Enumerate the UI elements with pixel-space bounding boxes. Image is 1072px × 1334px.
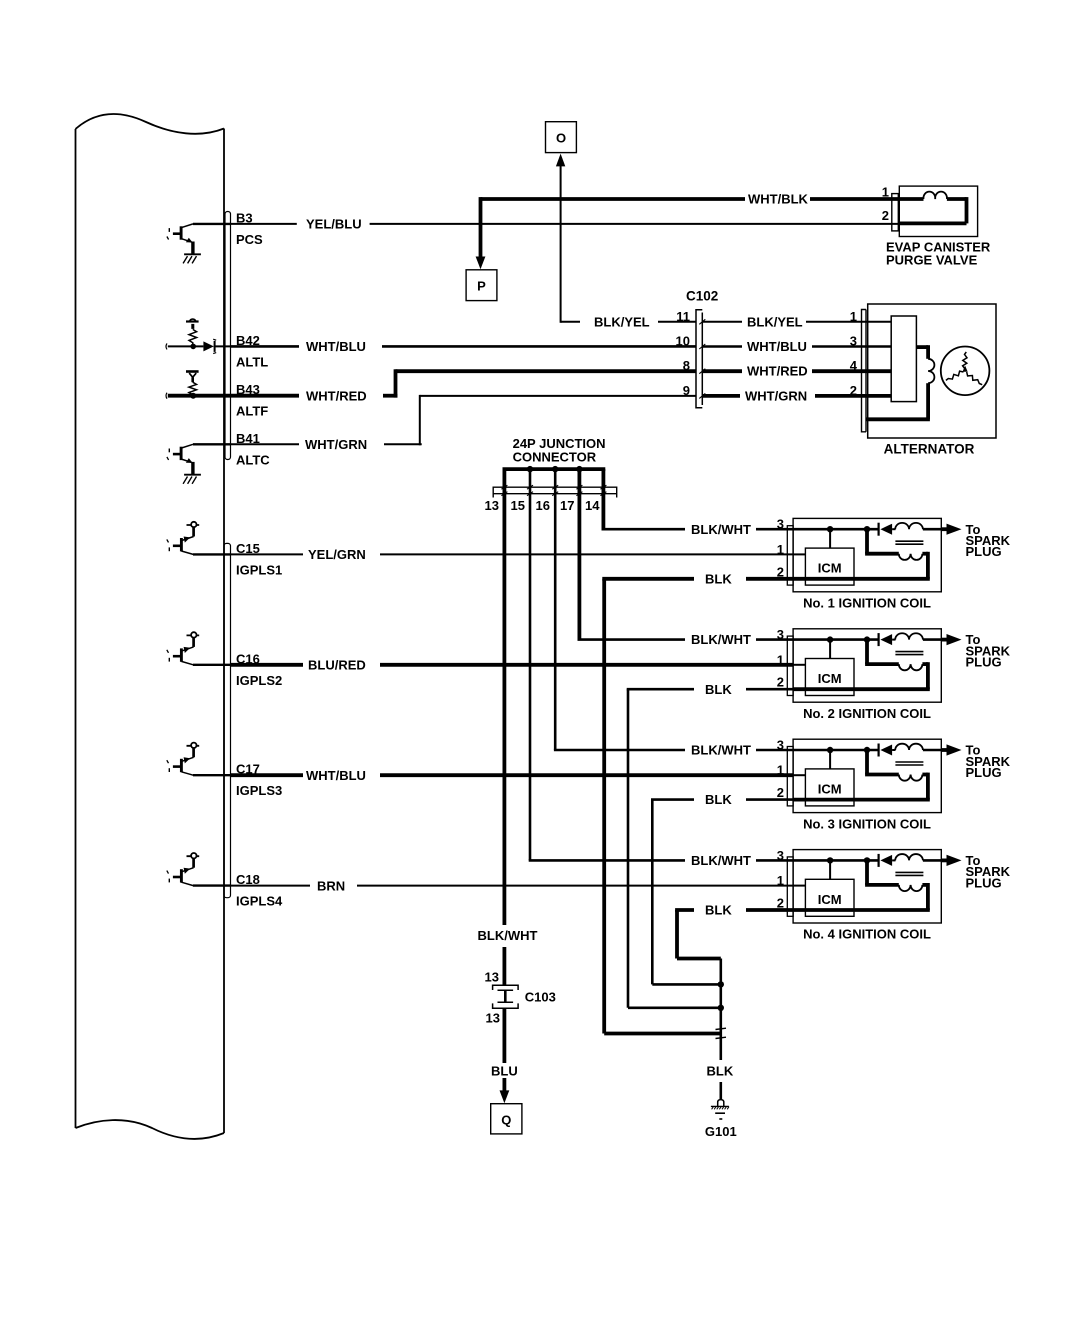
- No. 2 coil pin 1 internal wire: [793, 664, 805, 666]
- ECM pin label C15/IGPLS1: [236, 541, 282, 578]
- No. 1 ignition coil body: [793, 518, 941, 591]
- svg-text:WHT/BLU: WHT/BLU: [306, 768, 366, 783]
- No. 1 coil ICM supply lead: [829, 529, 831, 548]
- ground symbol G101: [711, 1100, 729, 1119]
- 24P junction connector body band: [493, 487, 617, 497]
- svg-text:BLK: BLK: [707, 1064, 734, 1079]
- svg-text:2: 2: [850, 383, 857, 398]
- No. 1 coil pin 1 internal wire: [793, 553, 805, 555]
- No. 3 coil pin numbers 3 1 2: [777, 738, 784, 801]
- ground (B3 driver emitter): [0, 0, 1, 1]
- No. 2 coil connector bracket: [787, 636, 793, 695]
- contact ticks on connector C102: [699, 319, 705, 398]
- No. 4 coil pin 2 internal wire: [793, 908, 930, 912]
- svg-text:B41: B41: [236, 431, 260, 446]
- No. 1 coil secondary winding: [865, 529, 928, 579]
- label WHT/BLU (left): [306, 339, 366, 354]
- connector box O: [546, 122, 577, 153]
- svg-text:Q: Q: [501, 1112, 511, 1127]
- svg-text:ALTC: ALTC: [236, 452, 270, 467]
- No. 3 coil output arrow to spark plug: [941, 744, 961, 755]
- svg-text:BLK/WHT: BLK/WHT: [691, 522, 751, 537]
- No. 4 coil output arrow to spark plug: [941, 855, 961, 866]
- alternator 3-phase stator symbol: [941, 347, 990, 396]
- No. 4 coil pin 1 internal wire: [793, 885, 805, 887]
- ECM pin label C17/IGPLS3: [236, 762, 282, 799]
- svg-text:3: 3: [850, 334, 857, 349]
- svg-text:11: 11: [676, 309, 690, 324]
- transistor at pin C16: [167, 632, 199, 665]
- svg-text:No. 1 IGNITION COIL: No. 1 IGNITION COIL: [803, 596, 931, 611]
- ECM pin label C16/IGPLS2: [236, 651, 282, 688]
- svg-text:WHT/RED: WHT/RED: [306, 388, 367, 403]
- svg-text:PURGE VALVE: PURGE VALVE: [886, 253, 978, 268]
- 24P junction pin numbers 13 15 16 17 14: [485, 498, 601, 513]
- svg-text:PLUG: PLUG: [966, 875, 1002, 890]
- label WHT/BLU (C17): [306, 768, 366, 783]
- label WHT/BLU (right): [747, 339, 807, 354]
- No. 4 coil connector bracket: [787, 857, 793, 916]
- No. 1 coil internal B+ wire: [793, 528, 879, 531]
- No. 3 ignition coil body: [793, 739, 941, 812]
- svg-text:IGPLS2: IGPLS2: [236, 673, 282, 688]
- svg-text:2: 2: [777, 564, 784, 579]
- No. 3 coil junction dots: [827, 747, 870, 753]
- svg-text:PLUG: PLUG: [966, 765, 1002, 780]
- No. 2 coil transformer core: [895, 652, 923, 655]
- svg-text:BLK/YEL: BLK/YEL: [594, 314, 650, 329]
- label BLK (No.1 coil): [705, 571, 732, 586]
- svg-text:C17: C17: [236, 762, 260, 777]
- wire BLU/RED from pin C16 to No.2 coil pin 1: [231, 663, 794, 667]
- label BLK/WHT (No.3 coil): [691, 743, 751, 758]
- EVAP canister purge valve connector bracket: [892, 194, 899, 231]
- connector C103: [493, 985, 518, 1008]
- svg-text:ICM: ICM: [818, 892, 842, 907]
- wire BRN from pin C18 to No.4 coil pin 1: [231, 885, 794, 887]
- svg-text:1: 1: [777, 873, 784, 888]
- svg-text:IGPLS4: IGPLS4: [236, 894, 283, 909]
- wire WHT/BLK from connector P down-feed to EVAP valve pin 1: [476, 197, 899, 269]
- label ALTERNATOR: [884, 442, 975, 457]
- svg-text:WHT/GRN: WHT/GRN: [745, 388, 807, 403]
- No. 3 coil diode: [879, 744, 893, 757]
- EVAP pin numbers 1 2: [882, 185, 889, 223]
- No. 2 coil output arrow to spark plug: [941, 634, 961, 645]
- svg-text:2: 2: [777, 785, 784, 800]
- alternator body: [868, 304, 996, 438]
- svg-text:WHT/BLK: WHT/BLK: [748, 192, 809, 207]
- label YEL/GRN: [308, 547, 366, 562]
- wire junction pin 14 to No.1 coil (BLK/WHT): [602, 469, 794, 529]
- svg-text:C15: C15: [236, 541, 260, 556]
- No. 3 coil pin 2 internal wire: [793, 798, 930, 802]
- No. 3 coil transformer core: [895, 762, 923, 765]
- No. 2 ignition coil body: [793, 629, 941, 702]
- label BLK/WHT (No.4 coil): [691, 853, 751, 868]
- svg-text:No. 4 IGNITION COIL: No. 4 IGNITION COIL: [803, 927, 931, 942]
- junction dots on ground bus: [718, 981, 724, 1011]
- svg-text:YEL/BLU: YEL/BLU: [306, 217, 362, 232]
- alternator pin numbers 1 3 4 2: [850, 309, 858, 398]
- svg-text:B43: B43: [236, 382, 260, 397]
- label G101: [705, 1124, 737, 1139]
- label BLK/WHT (vertical wire): [478, 928, 538, 943]
- label No. 3 IGNITION COIL: [803, 816, 931, 831]
- svg-text:3: 3: [777, 738, 784, 753]
- ECM pin label B42/ALTL: [236, 333, 268, 370]
- label BLK/YEL (right): [747, 314, 803, 329]
- svg-text:16: 16: [536, 498, 550, 513]
- label BLK (ground wire): [707, 1064, 734, 1079]
- No. 2 coil diode: [879, 633, 893, 646]
- No. 3 coil ICM supply lead: [829, 750, 831, 769]
- No. 4 coil primary winding: [892, 854, 941, 860]
- svg-text:15: 15: [511, 498, 525, 513]
- No. 2 coil pin 2 internal wire: [793, 687, 930, 691]
- svg-text:BLK/WHT: BLK/WHT: [478, 928, 538, 943]
- wire BLK from No.3 coil pin 2: [651, 800, 794, 985]
- svg-text:BLK: BLK: [705, 792, 732, 807]
- connector box Q: [491, 1104, 522, 1134]
- label BLK (No.2 coil): [705, 682, 732, 697]
- svg-text:4: 4: [850, 358, 858, 373]
- svg-text:ICM: ICM: [818, 671, 842, 686]
- svg-text:10: 10: [676, 334, 690, 349]
- No. 4 ignition coil body: [793, 850, 941, 923]
- svg-text:ICM: ICM: [818, 561, 842, 576]
- alternator internal regulator box: [891, 316, 916, 402]
- transistor at pin C15: [167, 522, 199, 555]
- label WHT/RED (left): [306, 388, 367, 403]
- label To SPARK PLUG (No.3): [966, 743, 1011, 780]
- label 24P JUNCTION CONNECTOR: [513, 436, 606, 464]
- No. 4 coil pin numbers 3 1 2: [777, 848, 784, 911]
- C102 pin numbers 11 10 8 9: [676, 309, 690, 398]
- 24P junction connector bus bar: [503, 467, 606, 471]
- wire WHT/BLU from pin B42 to C102 pin 10: [231, 345, 697, 348]
- label WHT/RED (right): [747, 364, 808, 379]
- wire WHT/RED C102 pin 8 to alternator pin 4: [702, 369, 891, 373]
- wire BLK/YEL rising to connector O: [556, 154, 696, 323]
- svg-text:ALTL: ALTL: [236, 354, 268, 369]
- transistor at pin C18: [167, 853, 199, 886]
- No. 4 coil ICM module: [805, 879, 854, 916]
- svg-text:13: 13: [485, 498, 499, 513]
- No. 4 coil diode: [879, 854, 893, 867]
- svg-text:B42: B42: [236, 333, 260, 348]
- No. 2 coil pin numbers 3 1 2: [777, 627, 784, 690]
- ECM pin label B43/ALTF: [236, 382, 268, 419]
- No. 2 coil ICM supply lead: [829, 640, 831, 659]
- svg-text:PLUG: PLUG: [966, 544, 1002, 559]
- label BLK/WHT (No.2 coil): [691, 632, 751, 647]
- No. 2 coil ICM module: [805, 659, 854, 696]
- svg-text:8: 8: [683, 358, 690, 373]
- svg-text:IGPLS1: IGPLS1: [236, 562, 282, 577]
- C103 pin number 13 (top): [485, 970, 499, 985]
- splice ticks at BLK junction: [716, 1028, 727, 1038]
- No. 1 coil transformer core: [895, 541, 923, 544]
- svg-text:PLUG: PLUG: [966, 655, 1002, 670]
- connector box P: [466, 270, 497, 301]
- svg-text:BLK: BLK: [705, 682, 732, 697]
- label To SPARK PLUG (No.2): [966, 632, 1011, 669]
- svg-text:PCS: PCS: [236, 232, 263, 247]
- No. 3 coil ICM module: [805, 769, 854, 806]
- svg-text:2: 2: [777, 896, 784, 911]
- svg-text:9: 9: [683, 383, 690, 398]
- No. 3 coil pin 1 internal wire: [793, 774, 805, 776]
- label To SPARK PLUG (No.4): [966, 853, 1011, 890]
- wire BLK from No.2 coil pin 2: [627, 689, 794, 1008]
- No. 4 coil secondary winding: [865, 860, 928, 910]
- No. 4 coil ICM supply lead: [829, 860, 831, 879]
- wire WHT/RED from pin B43 to C102 pin 8: [231, 369, 697, 397]
- svg-text:No. 2 IGNITION COIL: No. 2 IGNITION COIL: [803, 706, 931, 721]
- svg-text:1: 1: [777, 763, 784, 778]
- svg-text:BLK: BLK: [705, 903, 732, 918]
- ECM pin label B41/ALTC: [236, 431, 270, 468]
- No. 1 coil ICM module: [805, 548, 854, 585]
- svg-text:ALTF: ALTF: [236, 404, 268, 419]
- svg-text:C102: C102: [686, 289, 718, 304]
- wire BLK/WHT junction pin 13 down to C103: [502, 469, 506, 985]
- label WHT/BLK: [748, 192, 809, 207]
- label C102: [686, 289, 718, 304]
- wire YEL/BLU from pin B3 to EVAP valve pin 2: [231, 223, 899, 225]
- No. 3 coil secondary winding: [865, 750, 928, 800]
- svg-text:P: P: [477, 279, 486, 294]
- svg-text:3: 3: [777, 627, 784, 642]
- label No. 4 IGNITION COIL: [803, 927, 931, 942]
- svg-text:14: 14: [585, 498, 600, 513]
- ground bus wire down to G101: [719, 959, 722, 1101]
- svg-text:WHT/GRN: WHT/GRN: [305, 437, 367, 452]
- C103 pin number 13 (bottom): [486, 1011, 500, 1026]
- transistor at pin B41: [167, 444, 201, 484]
- ECM/PCM block outline: [76, 114, 225, 1139]
- svg-text:IGPLS3: IGPLS3: [236, 783, 282, 798]
- wire WHT/GRN from pin B41 to C102 pin 9: [231, 395, 697, 445]
- transistor at pin C17: [167, 743, 199, 776]
- wire WHT/BLU C102 pin 10 to alternator pin 3: [702, 345, 891, 348]
- label To SPARK PLUG (No.1): [966, 522, 1011, 559]
- svg-text:WHT/RED: WHT/RED: [747, 364, 808, 379]
- svg-text:1: 1: [777, 652, 784, 667]
- contact ticks on 24P connector band: [501, 485, 606, 496]
- svg-text:13: 13: [485, 970, 499, 985]
- svg-text:17: 17: [560, 498, 574, 513]
- No. 2 coil junction dots: [827, 636, 870, 642]
- svg-text:BRN: BRN: [317, 878, 345, 893]
- No. 1 coil pin 2 internal wire: [793, 577, 930, 581]
- zener diode at pin B43: [186, 372, 199, 396]
- wire WHT/GRN C102 pin 9 to alternator pin 2: [702, 394, 891, 398]
- svg-text:WHT/BLU: WHT/BLU: [306, 339, 366, 354]
- svg-text:C18: C18: [236, 872, 260, 887]
- label BLK (No.3 coil): [705, 792, 732, 807]
- No. 3 coil primary winding: [892, 744, 941, 750]
- svg-text:O: O: [556, 131, 566, 146]
- label EVAP CANISTER PURGE VALVE: [886, 240, 991, 268]
- wire BLK/YEL C102 pin 11 to alternator pin 1: [702, 321, 891, 323]
- svg-text:B3: B3: [236, 210, 253, 225]
- svg-text:1: 1: [777, 542, 784, 557]
- wire junction pin 16 to No.3 coil (BLK/WHT): [554, 469, 794, 750]
- wire junction pin 15 to No.4 coil (BLK/WHT): [529, 469, 794, 860]
- ECM pin label B3/PCS: [236, 210, 263, 247]
- zener diode at pin B42: [186, 319, 199, 346]
- No. 1 coil primary winding: [892, 523, 941, 529]
- EVAP canister purge valve body: [898, 186, 977, 236]
- label YEL/BLU: [306, 217, 362, 232]
- svg-text:2: 2: [777, 675, 784, 690]
- No. 3 coil internal B+ wire: [793, 749, 879, 752]
- label BLK/WHT (No.1 coil): [691, 522, 751, 537]
- wire BLK from No.4 coil pin 2: [675, 910, 793, 959]
- diode in series at pin B42: [166, 339, 231, 353]
- svg-text:BLU/RED: BLU/RED: [308, 658, 366, 673]
- No. 4 coil internal B+ wire: [793, 859, 879, 862]
- alternator connector bracket: [862, 310, 867, 432]
- No. 2 coil primary winding: [892, 633, 941, 639]
- svg-text:YEL/GRN: YEL/GRN: [308, 547, 366, 562]
- No. 4 coil transformer core: [895, 872, 923, 875]
- label No. 2 IGNITION COIL: [803, 706, 931, 721]
- svg-text:2: 2: [882, 208, 889, 223]
- svg-text:1: 1: [882, 185, 889, 200]
- label No. 1 IGNITION COIL: [803, 596, 931, 611]
- No. 1 coil connector bracket: [787, 526, 793, 585]
- svg-text:3: 3: [777, 848, 784, 863]
- label BLU/RED: [308, 658, 366, 673]
- No. 1 coil diode: [879, 523, 893, 536]
- svg-text:BLK/WHT: BLK/WHT: [691, 853, 751, 868]
- svg-text:C16: C16: [236, 651, 260, 666]
- ECM pin label C18/IGPLS4: [236, 872, 283, 909]
- svg-text:13: 13: [486, 1011, 500, 1026]
- alternator field winding wire and coil: [866, 345, 934, 419]
- svg-text:3: 3: [777, 517, 784, 532]
- wire stub at pin B43: [166, 393, 231, 399]
- label WHT/GRN (right): [745, 388, 807, 403]
- No. 2 coil secondary winding: [865, 640, 928, 690]
- svg-text:1: 1: [850, 309, 857, 324]
- label BRN: [317, 878, 345, 893]
- No. 3 coil connector bracket: [787, 747, 793, 806]
- wire BLU to connector Q: [500, 1008, 510, 1103]
- svg-text:ALTERNATOR: ALTERNATOR: [884, 442, 975, 457]
- svg-text:BLK/YEL: BLK/YEL: [747, 314, 803, 329]
- svg-text:BLU: BLU: [491, 1063, 518, 1078]
- transistor at pin B3: [167, 224, 201, 264]
- svg-text:G101: G101: [705, 1124, 737, 1139]
- No. 2 coil internal B+ wire: [793, 638, 879, 641]
- svg-text:BLK/WHT: BLK/WHT: [691, 743, 751, 758]
- wire YEL/GRN from pin C15 to No.1 coil pin 1: [231, 553, 794, 555]
- No. 1 coil pin numbers 3 1 2: [777, 517, 784, 580]
- ECM C-connector bar: [224, 543, 231, 897]
- junction dots on bus bar: [527, 466, 583, 472]
- wire junction pin 17 to No.2 coil (BLK/WHT): [578, 469, 794, 639]
- wire WHT/BLU from pin C17 to No.3 coil pin 1: [231, 773, 794, 777]
- svg-text:BLK: BLK: [705, 571, 732, 586]
- wire BLK from No.1 coil pin 2: [602, 579, 793, 1034]
- ECM B-connector bar: [225, 212, 231, 460]
- label BLU: [491, 1063, 518, 1078]
- svg-text:BLK/WHT: BLK/WHT: [691, 632, 751, 647]
- svg-text:No. 3 IGNITION COIL: No. 3 IGNITION COIL: [803, 816, 931, 831]
- connector C102: [696, 310, 702, 408]
- label WHT/GRN (left): [305, 437, 367, 452]
- svg-text:ICM: ICM: [818, 781, 842, 796]
- No. 4 coil junction dots: [827, 857, 870, 863]
- No. 1 coil output arrow to spark plug: [941, 524, 961, 535]
- svg-text:CONNECTOR: CONNECTOR: [513, 449, 597, 464]
- svg-text:WHT/BLU: WHT/BLU: [747, 339, 807, 354]
- svg-text:C103: C103: [525, 990, 556, 1005]
- No. 1 coil junction dots: [827, 526, 870, 532]
- label BLK (No.4 coil): [705, 903, 732, 918]
- label BLK/YEL: [594, 314, 650, 329]
- label C103: [525, 990, 556, 1005]
